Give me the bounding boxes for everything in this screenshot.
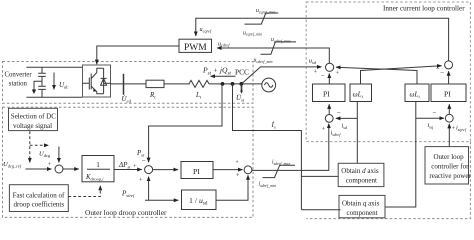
node bar Ucd [123, 74, 125, 95]
svg-text:PI: PI [444, 90, 451, 99]
dashed box converter station system [3, 62, 254, 104]
block wLt left [350, 84, 372, 102]
svg-text:−: − [337, 109, 341, 117]
svg-text:−: − [436, 65, 440, 73]
wire PI q-axis to junction [448, 71, 450, 84]
dashed box inner current loop controller [306, 2, 470, 142]
wire droop gain to junction [114, 169, 142, 171]
svg-text:+: + [133, 163, 137, 170]
svg-text:Fast calculation of: Fast calculation of [13, 191, 65, 199]
svg-text:Pstref: Pstref [121, 190, 135, 199]
summing junction power [145, 166, 153, 174]
wire Is measurement [233, 84, 302, 210]
block PWM [179, 39, 212, 53]
capacitor C1 [38, 67, 46, 86]
block wLt right [405, 84, 429, 102]
svg-text:isd: isd [342, 122, 348, 130]
svg-text:Converter: Converter [5, 72, 33, 79]
svg-text:reactive power: reactive power [429, 172, 471, 180]
cross-coupling wire wLt-left to q junction [361, 66, 442, 84]
wire to droop gain [63, 168, 79, 170]
wire 1/usd to junction2 [216, 175, 248, 200]
wire junction to droop PI [152, 169, 178, 171]
wire Udcgref input [26, 168, 52, 170]
wire DC bus bottom rail [26, 96, 82, 98]
svg-text:+: + [314, 69, 318, 76]
svg-text:droop coefficients: droop coefficients [14, 200, 65, 208]
limiter isdref [263, 165, 296, 177]
svg-text:Udcg_ref: Udcg_ref [3, 161, 22, 169]
wire PI d-axis to junction [328, 74, 330, 85]
wire R to L [164, 83, 190, 85]
wire error to PI d-axis [328, 104, 330, 114]
svg-text:Kdroop,i: Kdroop,i [85, 174, 104, 183]
svg-text:ωLt: ωLt [410, 90, 421, 99]
wire isq feed [385, 102, 416, 208]
summing junction isdref [244, 166, 252, 174]
svg-text:PI: PI [323, 90, 330, 99]
svg-text:−: − [142, 156, 146, 164]
svg-text:−: − [321, 72, 325, 80]
cross-coupling wire wLt-right to d junction [336, 67, 417, 84]
svg-text:U̇cd: U̇cd [122, 95, 132, 104]
svg-text:İs: İs [271, 121, 276, 130]
capacitor C2 [38, 86, 46, 97]
voltage arrow Udc [53, 73, 55, 90]
summing junction q-axis current [445, 114, 453, 122]
svg-text:Rt: Rt [149, 91, 156, 100]
wire isdref to d-current junction [252, 124, 329, 171]
svg-text:Lt: Lt [195, 91, 202, 100]
svg-text:+: + [336, 70, 340, 77]
svg-text:+: + [235, 159, 239, 166]
svg-text:component: component [346, 177, 377, 185]
svg-text:ucdref: ucdref [218, 40, 230, 47]
svg-text:controller for: controller for [431, 162, 469, 170]
ground [32, 81, 42, 94]
wire PWM to converter [97, 46, 179, 64]
svg-text:voltage signal: voltage signal [13, 122, 52, 130]
dashed box outer reactive region [306, 142, 470, 219]
block selection of DC voltage signal [9, 108, 58, 130]
wire error to PI q-axis [448, 104, 450, 114]
dashed box outer loop droop controller [3, 107, 254, 217]
summing junction d-axis voltage [326, 63, 334, 71]
block PI q-axis [431, 84, 466, 102]
svg-text:isqref: isqref [456, 125, 467, 133]
block fast calculation of droop coefficients [9, 185, 68, 212]
svg-text:ucqref: ucqref [200, 26, 212, 33]
block obtain q axis component [339, 195, 385, 217]
power flow arrow Pst+jQst [211, 75, 236, 77]
node dot 2 [231, 82, 235, 86]
block droop gain 1/Kdroop [82, 156, 114, 183]
dashed wire fast calc to droop gain [68, 186, 100, 197]
svg-text:Inner current loop controller: Inner current loop controller [383, 4, 465, 12]
wire isq into junction [416, 117, 444, 119]
svg-text:ucdref_min: ucdref_min [254, 57, 273, 63]
wire ucdref junction to PWM [217, 48, 329, 64]
svg-text:ΔPst: ΔPst [118, 161, 131, 170]
wire usd measurement to summing node [242, 67, 322, 84]
wire Is to d-axis block [301, 175, 338, 177]
wire DC bus top rail [26, 66, 82, 68]
node dot 3 PCC [239, 82, 243, 86]
svg-text:Udc: Udc [59, 81, 68, 90]
svg-text:ucqref_max: ucqref_max [256, 8, 276, 14]
inductor Lt [189, 80, 209, 87]
svg-text:PI: PI [193, 167, 200, 176]
block PI d-axis [313, 84, 346, 102]
svg-text:station: station [9, 81, 28, 88]
svg-text:PCC: PCC [235, 68, 249, 77]
svg-text:U̇st: U̇st [236, 94, 245, 103]
block droop PI [181, 162, 213, 179]
svg-text:+: + [322, 126, 326, 133]
resistor Rt [146, 80, 164, 87]
svg-text:+: + [139, 177, 143, 184]
svg-text:Outer loop: Outer loop [434, 153, 465, 161]
wire isd into junction [336, 117, 358, 119]
summing junction d-axis current [325, 115, 333, 123]
svg-text:component: component [347, 209, 378, 217]
svg-text:+: + [48, 161, 52, 168]
wire droop PI to junction2 [213, 169, 243, 171]
svg-text:1: 1 [96, 161, 100, 169]
wire L to grid [209, 83, 262, 85]
svg-text:+: + [236, 172, 240, 179]
svg-text:Outer loop droop controller: Outer loop droop controller [85, 208, 167, 217]
wire isd feed [356, 102, 358, 164]
block outer loop controller for reactive power [425, 147, 471, 184]
svg-text:Pst + jQst: Pst + jQst [202, 66, 231, 77]
svg-text:isdref: isdref [331, 130, 342, 138]
dashed wire Udcg into junction [30, 144, 49, 146]
svg-text:−: − [433, 109, 437, 117]
svg-text:isq: isq [428, 122, 434, 130]
node Ust stub [241, 84, 243, 91]
wire Pst measurement [149, 84, 222, 162]
limiter ucdref [261, 42, 297, 54]
svg-text:Obtain q axis: Obtain q axis [342, 200, 380, 208]
converter (IGBT bridge) U1 [83, 65, 111, 97]
wire Pstref input [145, 199, 178, 201]
AC grid source G [262, 78, 276, 92]
dashed wire selection to Udcgref [29, 131, 31, 162]
svg-text:Obtain d axis: Obtain d axis [341, 167, 379, 175]
svg-text:ucdref_max: ucdref_max [271, 37, 291, 43]
block obtain d axis component [338, 163, 384, 186]
svg-text:Udcg: Udcg [39, 150, 51, 158]
wire converter output [111, 83, 147, 85]
svg-text:PWM: PWM [184, 43, 207, 53]
summing junction DC voltage [55, 165, 63, 173]
wire ucqref junction to PWM [196, 18, 449, 61]
svg-text:ucqref_min: ucqref_min [243, 30, 262, 36]
svg-text:Selection of DC: Selection of DC [11, 113, 56, 121]
svg-text:ωLt: ωLt [353, 90, 364, 99]
wire Is to q-axis block [301, 209, 340, 211]
wire Pstref branch into junction [148, 177, 150, 201]
wire isqref from reactive controller [448, 124, 450, 147]
svg-text:1 / usd: 1 / usd [189, 196, 208, 207]
svg-text:isdref_min: isdref_min [259, 181, 276, 187]
svg-text:usd: usd [309, 58, 317, 66]
summing junction q-axis voltage [445, 61, 453, 69]
block 1/usd [182, 190, 217, 210]
svg-text:−: − [440, 69, 444, 77]
svg-text:isdref_max: isdref_max [272, 160, 290, 166]
node dot 1 [221, 82, 225, 86]
